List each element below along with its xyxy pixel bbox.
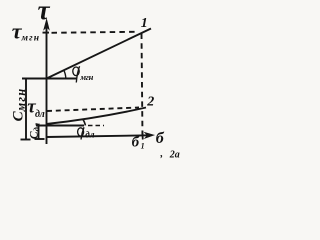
svg-text:,: , bbox=[160, 149, 164, 160]
svg-text:мгн: мгн bbox=[79, 72, 93, 82]
svg-text:1: 1 bbox=[141, 16, 148, 31]
svg-text:τ: τ bbox=[38, 0, 51, 25]
svg-text:Смгн: Смгн bbox=[11, 88, 28, 122]
svg-text:б: б bbox=[132, 135, 140, 151]
svg-text:дл: дл bbox=[85, 130, 95, 140]
svg-text:б: б bbox=[156, 130, 165, 147]
svg-text:1: 1 bbox=[141, 142, 145, 151]
svg-text:2: 2 bbox=[146, 95, 154, 110]
svg-text:дл: дл bbox=[35, 109, 45, 120]
svg-text:мгн: мгн bbox=[21, 34, 40, 44]
svg-text:2а: 2а bbox=[169, 150, 180, 161]
